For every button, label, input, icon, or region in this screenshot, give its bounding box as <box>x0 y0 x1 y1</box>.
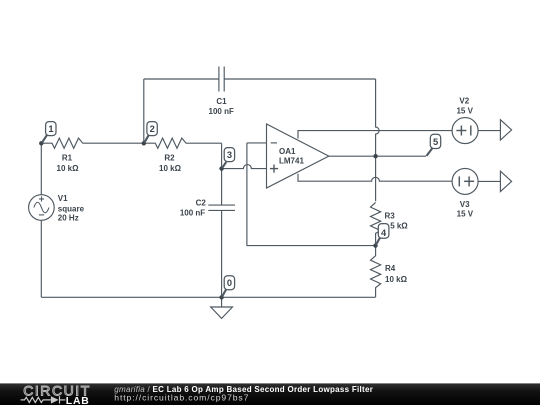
node tag 1 <box>42 122 56 143</box>
resistor R3 <box>371 202 381 245</box>
wire C2 bottom to ground rail <box>221 210 223 297</box>
svg-text:R4: R4 <box>385 264 396 273</box>
svg-text:V1: V1 <box>58 194 68 203</box>
resistor R4 <box>371 246 381 298</box>
op-amp plus input marker <box>270 165 278 173</box>
junction node 2 <box>142 141 146 145</box>
svg-text:OA1: OA1 <box>279 147 296 156</box>
svg-text:LAB: LAB <box>66 396 90 405</box>
svg-text:15 V: 15 V <box>456 107 473 116</box>
label R1 value <box>57 154 80 174</box>
wire V1 bottom to ground rail <box>40 220 42 297</box>
wire feedback vertical (inverting input to node 4) <box>247 143 376 246</box>
svg-text:R3: R3 <box>385 211 396 220</box>
wire node 2 vertical <box>143 79 145 143</box>
svg-text:square: square <box>58 204 85 213</box>
label V3 15 V <box>457 200 474 219</box>
ground wire stub <box>221 297 223 307</box>
svg-text:5 kΩ: 5 kΩ <box>390 222 408 231</box>
svg-text:R2: R2 <box>164 154 175 163</box>
wire V3 right to flag <box>478 180 501 182</box>
CircuitLab logo resistor-diode symbol <box>21 396 66 403</box>
voltage source V2 <box>452 118 478 144</box>
wire top rail right of C1 <box>224 78 375 80</box>
junction node 0 <box>219 295 223 299</box>
wire top rail left of C1 <box>144 78 219 80</box>
svg-text:V2: V2 <box>459 96 469 105</box>
wire op-amp output <box>329 155 426 157</box>
svg-text:C2: C2 <box>196 199 207 208</box>
svg-text:0: 0 <box>227 278 232 288</box>
junction node 1 <box>39 141 43 145</box>
junction node 5 (output) <box>373 154 377 158</box>
label R2 value <box>159 154 182 174</box>
node tag 0 <box>222 276 235 297</box>
svg-text:10 kΩ: 10 kΩ <box>57 164 80 173</box>
node tag 5 <box>427 134 441 156</box>
label OA1 LM741 <box>279 147 304 166</box>
svg-text:http://circuitlab.com/cp97bs7: http://circuitlab.com/cp97bs7 <box>114 393 249 403</box>
wire op-amp inverting input <box>247 142 267 144</box>
ground symbol <box>211 307 233 318</box>
voltage source V3 <box>452 168 478 194</box>
wire node 3 down to C2 <box>221 169 223 206</box>
wire node 2 right drop to node 3 <box>221 143 223 168</box>
svg-text:V3: V3 <box>460 200 470 209</box>
label V2 15 V <box>456 96 473 115</box>
flag terminal V3 <box>500 171 511 191</box>
footer bar <box>0 383 540 405</box>
junction node 4 <box>373 243 377 247</box>
voltage source V1 <box>29 195 55 221</box>
label C2 value <box>180 199 206 218</box>
svg-text:100 nF: 100 nF <box>180 208 205 217</box>
svg-text:10 kΩ: 10 kΩ <box>159 164 182 173</box>
wire op-amp V+ pin <box>298 131 452 139</box>
svg-text:4: 4 <box>381 228 387 238</box>
svg-text:2: 2 <box>150 124 155 134</box>
wire op-amp V- pin (with hop over right vertical) <box>298 174 452 181</box>
svg-text:15 V: 15 V <box>457 210 474 219</box>
node tag 3 <box>222 148 235 169</box>
wire right vertical (output to R3) <box>375 156 377 201</box>
svg-text:R1: R1 <box>62 154 73 163</box>
wire right vertical top (C1 to output, hop over V+ wire) <box>376 79 379 156</box>
wire V2 right to flag <box>478 130 501 132</box>
wire node 3 to op-amp + input (with hop) <box>222 165 267 169</box>
op-amp minus input marker <box>271 142 277 144</box>
capacitor C2 <box>208 205 235 210</box>
resistor R1 <box>41 138 144 148</box>
node tag 2 <box>144 122 157 143</box>
svg-text:5: 5 <box>433 137 438 147</box>
wire bottom rail left <box>41 296 221 298</box>
label V1 square 20 Hz <box>58 194 85 222</box>
svg-text:20 Hz: 20 Hz <box>58 213 79 222</box>
svg-text:C1: C1 <box>216 97 227 106</box>
label R4 value <box>385 264 408 284</box>
op-amp OA1 triangle <box>267 124 329 188</box>
flag terminal V2 <box>500 120 511 140</box>
label R3 value <box>385 211 409 230</box>
label C1 value <box>209 97 234 116</box>
junction node 3 <box>219 166 223 170</box>
node tag 4 <box>376 224 389 246</box>
capacitor C1 <box>219 67 224 92</box>
wire left vertical (node 1 to V1 top) <box>40 143 42 195</box>
svg-text:1: 1 <box>48 124 53 134</box>
svg-text:3: 3 <box>227 150 232 160</box>
svg-text:10 kΩ: 10 kΩ <box>385 275 408 284</box>
svg-text:LM741: LM741 <box>279 156 304 165</box>
svg-text:100 nF: 100 nF <box>209 107 234 116</box>
resistor R2 <box>144 138 222 148</box>
wire bottom rail right <box>222 296 376 298</box>
